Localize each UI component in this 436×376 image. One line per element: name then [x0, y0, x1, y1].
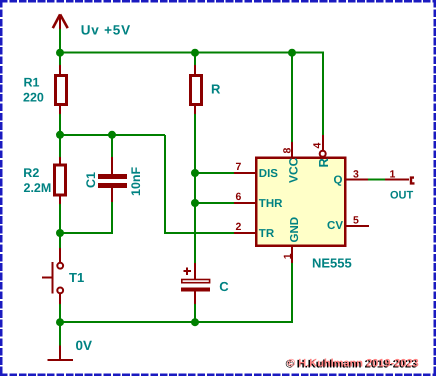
- pin 3 Q stub: [346, 179, 368, 181]
- pin 2 TR stub: [234, 232, 256, 234]
- wire R2 bottom to node B: [59, 203, 61, 233]
- svg-text:1: 1: [390, 169, 396, 181]
- svg-text:Uv +5V: Uv +5V: [81, 22, 131, 37]
- wire T1 bottom to 0V rail: [59, 303, 61, 322]
- svg-text:T1: T1: [69, 270, 84, 285]
- svg-text:C1: C1: [84, 172, 98, 188]
- wire R top: [194, 52, 196, 66]
- junction node THR: [191, 199, 199, 207]
- svg-text:C: C: [219, 279, 229, 294]
- ground symbol 0V: [48, 322, 74, 360]
- pushbutton T1: [42, 248, 63, 304]
- svg-text:R2: R2: [23, 166, 39, 180]
- svg-text:R: R: [211, 82, 221, 97]
- op IC NE555 U1 body: [256, 158, 345, 246]
- pin 4 reset stub with bubble: [320, 135, 326, 157]
- junction 0V rail T1: [56, 318, 64, 326]
- junction node B: [56, 229, 64, 237]
- pin 6 THR stub: [234, 202, 256, 204]
- wire R1 top: [59, 52, 61, 66]
- pin 1 GND stub: [291, 246, 293, 263]
- junction node top rail R: [191, 49, 199, 57]
- junction node A R1 R2: [56, 131, 64, 139]
- capacitor C electrolytic: [181, 263, 210, 304]
- resistor R2: [55, 157, 66, 204]
- power supply symbol Uv +5V arrow: [53, 14, 68, 29]
- junction node top rail VCC: [288, 49, 296, 57]
- svg-text:© H.Kuhlmann 2019-2023: © H.Kuhlmann 2019-2023: [287, 357, 419, 369]
- wire arrow stem to rail: [59, 29, 61, 53]
- svg-text:3: 3: [353, 169, 359, 181]
- wire 0V bottom rail to GND pin: [60, 263, 292, 322]
- svg-text:VCC: VCC: [287, 157, 301, 183]
- pin 7 DIS stub: [234, 172, 256, 174]
- svg-text:220: 220: [23, 91, 44, 105]
- resistor R1: [56, 65, 67, 114]
- wire VCC drop: [291, 52, 293, 143]
- svg-text:4: 4: [312, 143, 324, 149]
- resistor R: [191, 65, 202, 114]
- svg-text:R: R: [316, 158, 331, 168]
- svg-text:10nF: 10nF: [129, 166, 143, 196]
- svg-text:TR: TR: [259, 228, 275, 240]
- svg-text:7: 7: [236, 161, 242, 173]
- svg-text:CV: CV: [327, 220, 343, 232]
- wire R2 top: [59, 134, 61, 158]
- svg-text:DIS: DIS: [259, 168, 279, 180]
- svg-text:OUT: OUT: [390, 190, 414, 202]
- wire T1 top: [59, 233, 61, 249]
- wire DIS: [195, 172, 235, 174]
- svg-text:8: 8: [282, 148, 294, 154]
- junction node top rail R1: [56, 49, 64, 57]
- wire node A horizontal: [60, 134, 165, 136]
- pin 8 VCC stub: [291, 142, 293, 158]
- wire THR: [195, 202, 235, 204]
- svg-text:2: 2: [236, 221, 242, 233]
- wire R1 bottom to node A: [59, 113, 61, 136]
- capacitor C1: [98, 157, 127, 202]
- svg-text:6: 6: [236, 191, 242, 203]
- wire R bottom through DIS THR nodes to cap C: [194, 113, 196, 264]
- svg-text:1: 1: [282, 253, 294, 259]
- svg-text:R1: R1: [24, 76, 40, 90]
- svg-text:Q: Q: [334, 175, 343, 187]
- wire cap C bottom to 0V rail: [194, 303, 196, 322]
- junction node DIS: [191, 169, 199, 177]
- svg-text:5: 5: [353, 215, 359, 227]
- copyright watermark: [286, 357, 419, 370]
- connector pinhead output pad 1: [385, 178, 415, 184]
- svg-text:GND: GND: [289, 217, 301, 243]
- wire TR from node A: [165, 135, 235, 233]
- svg-text:NE555: NE555: [312, 256, 352, 271]
- svg-text:0V: 0V: [76, 338, 93, 353]
- pin 5 CV stub: [346, 225, 369, 227]
- svg-text:2.2M: 2.2M: [24, 181, 52, 195]
- svg-text:THR: THR: [259, 198, 283, 210]
- junction 0V rail C: [191, 318, 199, 326]
- wire C1 bottom to node B: [60, 201, 112, 233]
- wire C1 top: [111, 134, 113, 158]
- wire +5V top rail to pin 4: [60, 53, 323, 136]
- wire Q output: [367, 179, 385, 181]
- junction node A C1: [108, 131, 116, 139]
